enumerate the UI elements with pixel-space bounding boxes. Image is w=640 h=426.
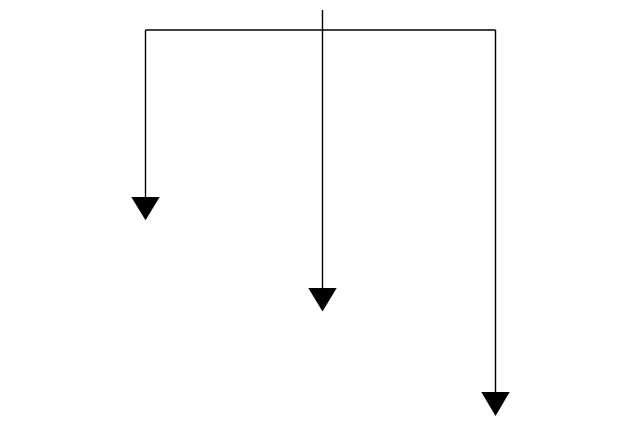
wire: right vertical drop [495, 30, 497, 392]
arrowhead: right arrow [481, 392, 509, 416]
arrowhead: left arrow [131, 197, 159, 220]
arrowhead: center arrow [308, 288, 336, 312]
wire: center vertical stem [322, 10, 324, 289]
wire: horizontal bus [146, 29, 496, 31]
wire: left vertical drop [145, 30, 147, 198]
